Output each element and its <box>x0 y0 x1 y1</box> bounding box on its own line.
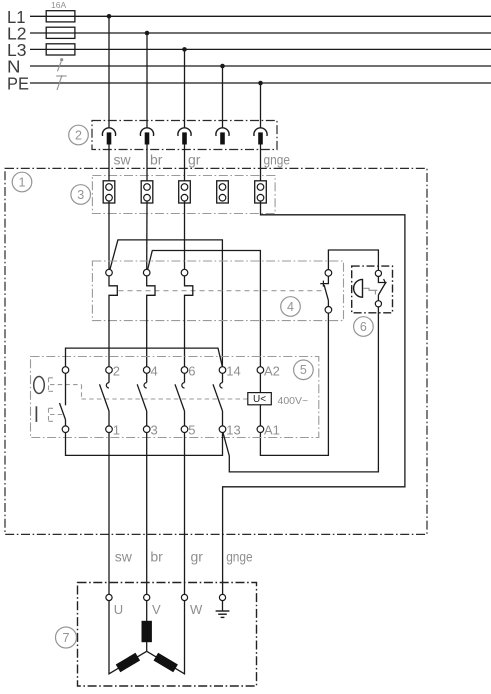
overload element L2 path (pin + heater jog) <box>143 269 155 366</box>
wire branch sw to terminal 14 <box>110 240 222 367</box>
wire node 13 to switch 6 bottom <box>223 307 379 472</box>
breaker pole 3-4 with latch hook <box>137 367 150 433</box>
node L3 tap <box>182 47 187 52</box>
wire label sw (bottom) <box>115 549 133 565</box>
label circle 6 <box>354 317 374 337</box>
wire label br (bottom) <box>150 549 163 565</box>
motor terminal W <box>181 594 203 617</box>
wire label br (top) <box>150 152 163 168</box>
wire L3 drop (gr) <box>184 49 186 128</box>
svg-text:14: 14 <box>226 364 240 379</box>
pin label A2 <box>264 364 280 379</box>
main trip linkage (dashed) section 5 <box>82 398 248 400</box>
motor terminal U <box>106 594 123 617</box>
wire label gr (bottom) <box>191 549 204 565</box>
wire label gr (top) <box>188 152 201 168</box>
svg-text:A1: A1 <box>264 423 280 438</box>
wire pole 3 to motor V (br) <box>146 433 148 595</box>
wire pole 5 to motor W (gr) <box>184 433 186 595</box>
svg-text:3: 3 <box>151 423 158 438</box>
pin label A1 <box>264 423 280 438</box>
svg-text:4: 4 <box>287 300 294 314</box>
auxiliary contact K1 (NO) <box>320 270 331 314</box>
svg-text:gnge: gnge <box>264 152 291 168</box>
wire pole0 bottom to node 13 <box>66 433 223 456</box>
svg-text:sw: sw <box>115 549 133 565</box>
enclosure box 6 (safety position switch) <box>352 266 393 313</box>
label circle 2 <box>69 125 89 145</box>
mechanical linkage (dashed) section 4 <box>119 290 323 292</box>
svg-text:6: 6 <box>360 320 367 334</box>
svg-text:br: br <box>150 152 163 168</box>
svg-text:gr: gr <box>188 152 201 168</box>
wire label gnge (bottom) <box>226 549 253 565</box>
terminal block X2:1 <box>103 181 115 203</box>
fuse F2 (L2) <box>46 27 75 38</box>
wire label gnge (top) <box>264 152 291 168</box>
value label 400V~ <box>278 395 309 407</box>
svg-text:U: U <box>114 602 123 617</box>
label circle 7 <box>56 627 77 648</box>
ground symbol <box>216 601 230 618</box>
svg-text:16A: 16A <box>51 0 66 10</box>
fuse F1 (L1) <box>46 11 75 22</box>
wire aux contact bottom to A1 <box>260 313 328 455</box>
wire terminal to contactor (br) <box>146 201 148 269</box>
terminal block X2:4 <box>217 181 229 203</box>
svg-text:7: 7 <box>62 630 69 645</box>
wire feed from node 14 to switch pole 0 <box>66 348 223 367</box>
enclosure box 3 (terminal strip) <box>92 176 275 214</box>
wire label sw (top) <box>114 152 132 168</box>
net L3 label <box>7 40 27 60</box>
svg-text:PE: PE <box>7 73 29 93</box>
wire L2 drop (br) <box>146 33 148 128</box>
wire motor W leg <box>147 601 185 674</box>
fuse value label 16A <box>51 0 66 10</box>
position switch contact S6 <box>375 270 386 307</box>
wire motor V leg <box>146 601 148 652</box>
net N label <box>7 56 21 76</box>
svg-text:gnge: gnge <box>226 549 253 565</box>
overload element L3 path (pin + heater jog) <box>181 269 193 366</box>
O button linkage (dashed) <box>49 378 82 399</box>
pin label 14 <box>226 364 240 379</box>
svg-text:A2: A2 <box>264 364 280 379</box>
enclosure box 7 (motor M1) <box>78 583 257 687</box>
terminal block X2:3 <box>179 181 191 203</box>
wire aux contact top loop to switch 6 <box>328 250 378 270</box>
N isolating point mark <box>57 58 63 71</box>
pin label 1 <box>113 423 120 438</box>
wire rail L3 <box>30 48 491 50</box>
net PE label <box>7 73 29 93</box>
enclosure box 5 (motor protection switch Q1) <box>31 357 319 438</box>
I pushbutton label <box>35 406 37 422</box>
wire plug3 to terminal (gr) <box>184 145 186 184</box>
enclosure box 4 (contactor K1 / overload) <box>92 261 343 321</box>
net L2 label <box>7 23 27 43</box>
svg-text:W: W <box>190 602 203 617</box>
pin label 4 <box>151 364 158 379</box>
pin label 2 <box>113 364 120 379</box>
wire rail L1 <box>30 15 491 17</box>
pin label 5 <box>188 423 195 438</box>
node PE tap <box>258 81 263 86</box>
pin label 3 <box>151 423 158 438</box>
svg-text:br: br <box>150 549 163 565</box>
wire pole 1 to motor U (sw) <box>108 433 110 595</box>
motor winding U (black bar) <box>116 653 140 673</box>
svg-text:gr: gr <box>191 549 204 565</box>
enclosure box 1 (control cabinet) <box>5 168 427 534</box>
breaker aux pole 13-14 with latch hook <box>213 367 226 433</box>
wire plug2 to terminal (br) <box>146 145 148 184</box>
motor terminal V <box>144 594 161 617</box>
wire plug5 to terminal (gnge) <box>260 145 262 184</box>
wire gnge routing (terminal 5 to motor PE) <box>223 201 405 594</box>
undervoltage coil terminals A2-A1 <box>257 367 264 433</box>
plug-socket X1 pin 2 (br) <box>140 128 153 145</box>
wire rail N <box>30 65 491 67</box>
breaker pole 1-2 with latch hook <box>100 367 113 433</box>
wire plug1 to terminal (sw) <box>108 145 110 184</box>
fuse F3 (L3) <box>46 44 75 55</box>
node N tap <box>220 64 225 69</box>
svg-text:13: 13 <box>226 423 240 438</box>
wire terminal to contactor (gr) <box>184 201 186 269</box>
terminal block X2:2 <box>141 181 153 203</box>
O pushbutton label <box>34 377 45 394</box>
label circle 1 <box>12 172 32 192</box>
enclosure box 2 (plug connector group) <box>92 121 277 150</box>
undervoltage release U< <box>248 393 271 405</box>
wire PE drop (gnge) <box>260 83 262 128</box>
svg-text:3: 3 <box>77 188 84 202</box>
overload element L1 path (pin + heater jog) <box>106 269 118 366</box>
pin label 13 <box>226 423 240 438</box>
actuator plunger link <box>364 288 378 294</box>
switch pole 0 (main mechanism contact) <box>60 367 69 433</box>
motor terminal PE <box>219 594 225 600</box>
node L1 tap <box>107 14 112 19</box>
wire rail L2 <box>30 32 491 34</box>
svg-text:4: 4 <box>151 364 158 379</box>
svg-text:U<: U< <box>253 394 266 405</box>
wire L1 drop (sw) <box>108 16 110 128</box>
plug-socket X1 pin 4 (N) <box>216 128 229 145</box>
svg-text:5: 5 <box>300 363 307 377</box>
svg-text:400V~: 400V~ <box>278 395 309 407</box>
node L2 tap <box>145 31 150 36</box>
terminal block X2:5 <box>255 181 267 203</box>
label circle 3 <box>71 185 91 205</box>
plug-socket X1 pin 3 (gr) <box>178 128 191 145</box>
svg-text:2: 2 <box>75 128 82 142</box>
svg-text:6: 6 <box>188 364 195 379</box>
wire motor U leg <box>109 601 147 674</box>
svg-text:1: 1 <box>19 175 26 189</box>
svg-text:2: 2 <box>113 364 120 379</box>
wire terminal to contactor (sw) <box>108 201 110 269</box>
I button linkage (dashed) <box>49 408 64 421</box>
label circle 5 <box>294 360 314 380</box>
breaker pole 5-6 with latch hook <box>175 367 188 433</box>
motor winding W (black bar) <box>154 653 178 673</box>
svg-text:V: V <box>152 602 161 617</box>
plug-socket X1 pin 1 (sw) <box>102 128 115 145</box>
plug-socket X1 pin 5 (gnge) <box>254 128 267 145</box>
svg-text:5: 5 <box>188 423 195 438</box>
net L1 label <box>7 7 26 27</box>
label circle 4 <box>281 297 301 317</box>
svg-text:sw: sw <box>114 152 132 168</box>
PE isolating point mark <box>56 75 66 90</box>
motor winding V (black bar) <box>142 621 152 642</box>
wire branch br to terminal A2 <box>148 251 261 367</box>
wire N drop <box>222 66 224 128</box>
pin label 6 <box>188 364 195 379</box>
wire rail PE <box>30 82 491 84</box>
position switch actuator (cam horn) <box>354 279 363 297</box>
svg-text:1: 1 <box>113 423 120 438</box>
